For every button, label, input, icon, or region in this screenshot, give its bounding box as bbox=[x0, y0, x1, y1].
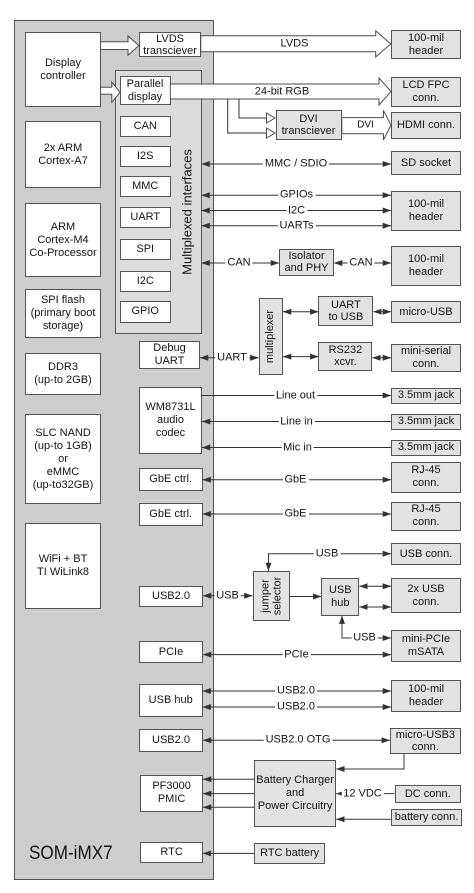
label USB2.0 a bbox=[275, 686, 317, 697]
block GPIO interface bbox=[120, 301, 171, 323]
wire multiplexer to RS232 bbox=[283, 356, 318, 358]
wire USB to jumper selector bbox=[203, 595, 253, 597]
label GbE 2 bbox=[282, 509, 308, 520]
block UART to USB bbox=[318, 296, 373, 326]
wire I2C bbox=[202, 210, 392, 212]
wire GbE 2 bbox=[203, 513, 391, 515]
block Display controller bbox=[25, 32, 101, 107]
label CAN right bbox=[347, 258, 374, 269]
block DC conn bbox=[395, 785, 462, 803]
block USB hub (carrier) bbox=[321, 578, 359, 615]
block mini-serial conn bbox=[391, 344, 461, 372]
label 24-bit RGB bbox=[253, 86, 311, 97]
block RJ-45 conn 1 bbox=[391, 462, 461, 493]
block ARM Cortex-M4 Co-Processor bbox=[25, 203, 101, 277]
block MMC interface bbox=[120, 176, 171, 197]
block micro-USB3 conn bbox=[390, 728, 461, 754]
block I2C interface bbox=[120, 271, 171, 292]
block SD socket bbox=[391, 151, 461, 175]
wire CAN to isolator bbox=[202, 262, 280, 264]
wire GPIOs bbox=[202, 194, 392, 196]
arrow LVDS bus bbox=[201, 31, 391, 57]
block LCD FPC conn bbox=[391, 77, 461, 107]
arrow DVI bus bbox=[342, 110, 391, 140]
multiplexed interfaces container bbox=[115, 70, 202, 334]
block 100-mil header (CAN) bbox=[391, 246, 461, 286]
block 100-mil header (USB2.0) bbox=[391, 680, 461, 712]
block 2x ARM Cortex-A7 bbox=[25, 121, 101, 188]
wire jumper selector to USB hub bbox=[290, 596, 322, 598]
wire PCIe bbox=[203, 654, 391, 656]
block I2S interface bbox=[120, 146, 171, 167]
label GPIOs bbox=[278, 190, 315, 201]
arrowhead RGB branch upper bbox=[267, 113, 276, 123]
wire MMC / SDIO bbox=[202, 163, 392, 165]
label PCIe (wire) bbox=[282, 649, 310, 660]
block UART interface bbox=[120, 207, 171, 228]
label USB hub-pcie bbox=[351, 633, 378, 644]
label USB2.0 b bbox=[275, 702, 317, 713]
block 100-mil header (LVDS) bbox=[391, 30, 461, 60]
wire multiplexer to UART-to-USB bbox=[283, 311, 318, 313]
wire UARTs bbox=[202, 225, 392, 227]
wire USB2.0 OTG bbox=[203, 739, 390, 741]
arrowhead RGB branch lower bbox=[267, 128, 276, 138]
SOM-iMX7 module name bbox=[29, 844, 113, 863]
block GbE ctrl 2 bbox=[139, 503, 203, 526]
label Multiplexed interfaces (vertical) bbox=[186, 211, 188, 213]
block Parallel display bbox=[120, 76, 171, 105]
wire USB2.0 b bbox=[203, 706, 391, 708]
block DDR3 bbox=[25, 353, 101, 395]
block WM8731L audio codec bbox=[139, 387, 202, 454]
wire USB hub to mini-PCIe bbox=[342, 616, 391, 638]
block LVDS transceiver bbox=[139, 32, 201, 57]
block RS232 xcvr bbox=[318, 342, 372, 371]
block 3.5mm jack (mic in) bbox=[391, 440, 461, 456]
block RJ-45 conn 2 bbox=[391, 502, 461, 531]
label UARTs bbox=[277, 220, 315, 231]
label I2C (wire) bbox=[286, 205, 307, 216]
label DVI bbox=[355, 120, 376, 131]
block RTC bbox=[140, 842, 203, 863]
block 3.5mm jack (line in) bbox=[391, 414, 461, 430]
label Line in bbox=[278, 416, 314, 427]
arrow Display controller to LVDS transceiver bbox=[101, 36, 139, 55]
label Mic in bbox=[281, 442, 314, 453]
label Line out bbox=[274, 390, 317, 401]
wire Line out bbox=[202, 395, 391, 397]
label GbE 1 bbox=[282, 474, 308, 485]
block 100-mil header (GPIO/I2C/UART) bbox=[391, 191, 461, 231]
label LVDS bbox=[279, 39, 311, 50]
label MMC / SDIO bbox=[263, 159, 329, 170]
wire RGB branch upper to DVI transceiver bbox=[239, 99, 266, 118]
block 2x USB conn bbox=[391, 578, 461, 613]
wire PMIC-charger 2 bbox=[203, 793, 254, 795]
block CAN interface bbox=[120, 116, 171, 137]
block PCIe bbox=[139, 641, 203, 663]
arrow 24-bit RGB bus bbox=[170, 78, 391, 105]
wire PMIC-charger 3 bbox=[203, 806, 254, 808]
block WiFi + BT TI WiLink8 bbox=[25, 523, 101, 609]
block RTC battery bbox=[254, 843, 325, 864]
block Debug UART bbox=[139, 341, 200, 369]
block micro-USB bbox=[391, 301, 461, 323]
wire RS232 to mini-serial bbox=[372, 357, 391, 359]
wire PMIC-charger 1 bbox=[203, 778, 254, 780]
wire GbE 1 bbox=[203, 479, 391, 481]
block GbE ctrl 1 bbox=[139, 468, 203, 491]
wire RTC battery to RTC bbox=[203, 852, 254, 854]
block PF3000 PMIC bbox=[140, 775, 203, 812]
block 3.5mm jack (line out) bbox=[391, 388, 461, 404]
arrow Display controller to Parallel display bbox=[101, 82, 121, 102]
block multiplexer bbox=[259, 298, 284, 375]
block HDMI conn bbox=[391, 112, 461, 139]
wire USB hub to 2x USB b bbox=[359, 606, 391, 608]
label USB2.0 OTG bbox=[264, 735, 333, 746]
wire battery conn to charger bbox=[336, 818, 391, 820]
SOM-iMX7 module outline bbox=[14, 20, 214, 880]
wire CAN isolator to header bbox=[334, 262, 391, 264]
wire USB to USB conn bbox=[269, 554, 392, 571]
block SPI interface bbox=[120, 239, 171, 260]
block Isolator and PHY bbox=[279, 249, 334, 276]
label CAN left bbox=[225, 258, 252, 269]
block SPI flash bbox=[25, 289, 101, 338]
block jumper selector bbox=[253, 571, 290, 621]
label USB mid bbox=[214, 590, 241, 601]
wire Mic in bbox=[202, 447, 391, 449]
block USB hub (SOM) bbox=[139, 684, 203, 717]
wire Line in bbox=[202, 421, 391, 423]
block Battery Charger and Power Circuitry bbox=[254, 760, 336, 827]
block SLC NAND / eMMC bbox=[25, 414, 101, 504]
label USB top bbox=[314, 548, 341, 559]
wire USB2.0 a bbox=[203, 690, 391, 692]
wire RGB branch lower to DVI transceiver bbox=[228, 99, 266, 133]
block battery conn bbox=[391, 809, 462, 826]
block DVI transceiver bbox=[276, 110, 342, 140]
wire UART-to-USB to micro-USB bbox=[373, 311, 391, 313]
block USB conn bbox=[391, 543, 461, 565]
wire micro-USB3 to charger bbox=[336, 754, 404, 769]
wire 12 VDC bbox=[336, 793, 394, 795]
label UART (wire) bbox=[215, 352, 249, 363]
wire UART debug to multiplexer bbox=[200, 357, 259, 359]
wire USB hub to 2x USB a bbox=[359, 585, 391, 587]
block USB2.0 OTG bbox=[139, 729, 203, 752]
block mini-PCIe mSATA bbox=[391, 630, 461, 662]
block USB2.0 host bbox=[139, 586, 203, 608]
label 12 VDC bbox=[341, 788, 384, 799]
